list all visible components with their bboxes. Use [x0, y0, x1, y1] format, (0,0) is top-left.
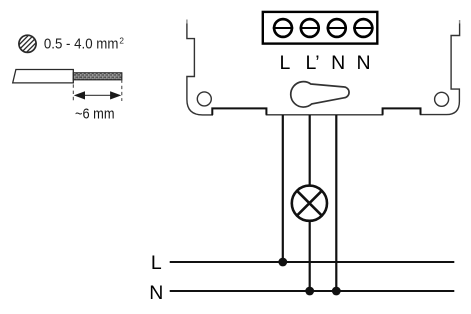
svg-text:2: 2: [119, 37, 124, 46]
svg-text:L: L: [279, 52, 290, 74]
svg-text:L’: L’: [306, 52, 320, 74]
svg-text:N: N: [149, 282, 163, 304]
svg-text:N: N: [331, 52, 345, 74]
svg-text:~6 mm: ~6 mm: [75, 105, 115, 122]
svg-text:0.5 - 4.0 mm: 0.5 - 4.0 mm: [44, 36, 119, 53]
svg-text:L: L: [151, 252, 162, 274]
svg-text:N: N: [357, 52, 371, 74]
